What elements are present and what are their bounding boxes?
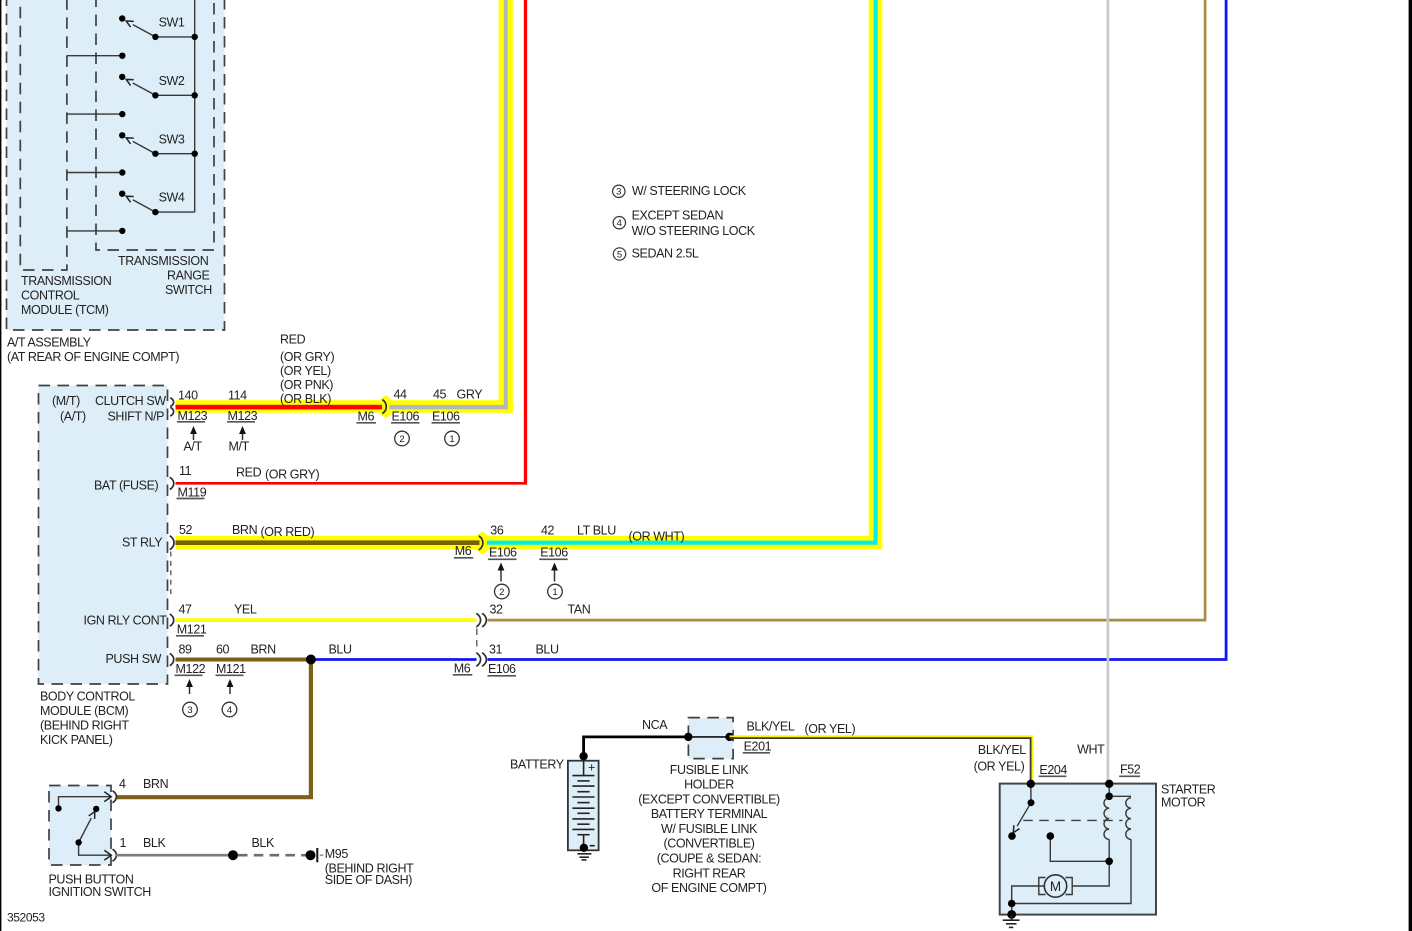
svg-text:5: 5 bbox=[617, 249, 622, 260]
svg-text:CONTROL: CONTROL bbox=[21, 289, 80, 303]
svg-text:M119: M119 bbox=[178, 486, 207, 500]
svg-text:11: 11 bbox=[179, 464, 192, 478]
svg-text:BATTERY TERMINAL: BATTERY TERMINAL bbox=[651, 807, 768, 821]
svg-text:OF ENGINE COMPT): OF ENGINE COMPT) bbox=[651, 881, 766, 895]
svg-text:YEL: YEL bbox=[234, 603, 257, 617]
svg-text:(BEHIND RIGHT: (BEHIND RIGHT bbox=[40, 719, 129, 733]
svg-text:44: 44 bbox=[394, 387, 408, 401]
svg-text:(CONVERTIBLE): (CONVERTIBLE) bbox=[663, 837, 754, 851]
svg-text:BRN: BRN bbox=[143, 777, 169, 791]
svg-text:TRANSMISSION: TRANSMISSION bbox=[118, 254, 209, 268]
svg-text:(OR GRY): (OR GRY) bbox=[280, 350, 334, 364]
svg-text:32: 32 bbox=[490, 603, 504, 617]
svg-text:M95: M95 bbox=[325, 847, 349, 861]
svg-text:SEDAN 2.5L: SEDAN 2.5L bbox=[632, 247, 699, 261]
svg-text:(COUPE & SEDAN:: (COUPE & SEDAN: bbox=[657, 852, 761, 866]
svg-text:SWITCH: SWITCH bbox=[165, 283, 212, 297]
svg-text:M122: M122 bbox=[176, 662, 206, 676]
svg-text:2: 2 bbox=[499, 587, 504, 598]
svg-text:E106: E106 bbox=[489, 546, 517, 560]
svg-text:M: M bbox=[1050, 879, 1061, 894]
svg-text:1: 1 bbox=[120, 836, 127, 850]
svg-text:(AT REAR OF ENGINE COMPT): (AT REAR OF ENGINE COMPT) bbox=[7, 350, 179, 364]
svg-text:(OR YEL): (OR YEL) bbox=[974, 760, 1025, 774]
svg-text:4: 4 bbox=[227, 705, 232, 716]
svg-text:4: 4 bbox=[119, 777, 126, 791]
svg-text:BLK/YEL: BLK/YEL bbox=[747, 720, 795, 734]
svg-text:47: 47 bbox=[179, 603, 193, 617]
svg-text:42: 42 bbox=[541, 524, 555, 538]
svg-text:STARTER: STARTER bbox=[1161, 783, 1216, 797]
svg-text:MOTOR: MOTOR bbox=[1161, 796, 1206, 810]
svg-text:114: 114 bbox=[228, 389, 247, 403]
svg-text:LT BLU: LT BLU bbox=[577, 524, 616, 538]
svg-text:60: 60 bbox=[216, 643, 230, 657]
svg-text:M121: M121 bbox=[177, 623, 207, 637]
svg-text:SW2: SW2 bbox=[159, 74, 185, 88]
svg-text:3: 3 bbox=[616, 187, 621, 198]
svg-text:A/T ASSEMBLY: A/T ASSEMBLY bbox=[7, 336, 92, 350]
svg-text:2: 2 bbox=[399, 434, 404, 445]
svg-text:+: + bbox=[588, 761, 595, 775]
svg-text:BATTERY: BATTERY bbox=[510, 758, 565, 772]
svg-text:EXCEPT SEDAN: EXCEPT SEDAN bbox=[632, 209, 724, 223]
svg-text:M123: M123 bbox=[228, 409, 258, 423]
svg-text:1: 1 bbox=[449, 434, 454, 445]
svg-text:1: 1 bbox=[552, 587, 557, 598]
svg-text:(OR PNK): (OR PNK) bbox=[280, 378, 333, 392]
svg-text:RED: RED bbox=[236, 466, 262, 480]
svg-text:M123: M123 bbox=[178, 409, 208, 423]
svg-text:SW1: SW1 bbox=[159, 16, 185, 30]
svg-text:(EXCEPT CONVERTIBLE): (EXCEPT CONVERTIBLE) bbox=[638, 792, 780, 806]
svg-text:FUSIBLE LINK: FUSIBLE LINK bbox=[670, 763, 750, 777]
svg-text:RANGE: RANGE bbox=[167, 269, 210, 283]
svg-text:52: 52 bbox=[179, 523, 193, 537]
svg-text:BRN: BRN bbox=[251, 643, 277, 657]
svg-text:W/O STEERING LOCK: W/O STEERING LOCK bbox=[632, 224, 756, 238]
svg-text:RIGHT REAR: RIGHT REAR bbox=[673, 866, 746, 880]
svg-text:(OR BLK): (OR BLK) bbox=[280, 392, 331, 406]
svg-text:ST RLY: ST RLY bbox=[122, 536, 163, 550]
svg-text:(M/T): (M/T) bbox=[52, 394, 80, 408]
svg-text:BLU: BLU bbox=[536, 643, 559, 657]
svg-text:NCA: NCA bbox=[642, 718, 668, 732]
svg-text:BRN: BRN bbox=[232, 523, 258, 537]
svg-text:45: 45 bbox=[433, 387, 447, 401]
svg-text:SW3: SW3 bbox=[159, 132, 185, 146]
svg-text:E201: E201 bbox=[744, 740, 772, 754]
svg-text:PUSH SW: PUSH SW bbox=[106, 652, 162, 666]
svg-text:(OR GRY): (OR GRY) bbox=[265, 468, 319, 482]
svg-text:BLU: BLU bbox=[329, 643, 352, 657]
svg-text:M6: M6 bbox=[454, 662, 471, 676]
svg-text:M6: M6 bbox=[455, 544, 472, 558]
svg-text:BODY CONTROL: BODY CONTROL bbox=[40, 690, 135, 704]
svg-text:352053: 352053 bbox=[7, 911, 45, 925]
svg-text:(OR RED): (OR RED) bbox=[261, 525, 315, 539]
svg-text:IGNITION SWITCH: IGNITION SWITCH bbox=[49, 885, 152, 899]
svg-text:(A/T): (A/T) bbox=[60, 410, 86, 424]
svg-text:89: 89 bbox=[179, 643, 193, 657]
svg-text:(OR YEL): (OR YEL) bbox=[280, 364, 331, 378]
svg-text:E204: E204 bbox=[1039, 763, 1067, 777]
svg-text:SIDE OF DASH): SIDE OF DASH) bbox=[325, 873, 412, 887]
svg-text:RED: RED bbox=[280, 333, 306, 347]
svg-text:M6: M6 bbox=[358, 410, 375, 424]
svg-text:CLUTCH SW: CLUTCH SW bbox=[95, 394, 166, 408]
svg-text:MODULE (BCM): MODULE (BCM) bbox=[40, 704, 128, 718]
svg-text:MODULE (TCM): MODULE (TCM) bbox=[21, 303, 109, 317]
svg-text:BLK: BLK bbox=[143, 836, 166, 850]
svg-text:(OR YEL): (OR YEL) bbox=[805, 722, 856, 736]
svg-text:TRANSMISSION: TRANSMISSION bbox=[21, 274, 112, 288]
svg-text:4: 4 bbox=[617, 218, 622, 229]
svg-text:SW4: SW4 bbox=[159, 191, 185, 205]
svg-text:KICK PANEL): KICK PANEL) bbox=[40, 733, 113, 747]
svg-text:BAT (FUSE): BAT (FUSE) bbox=[94, 479, 159, 493]
svg-text:M121: M121 bbox=[216, 662, 246, 676]
svg-text:A/T: A/T bbox=[184, 440, 203, 454]
svg-text:W/ FUSIBLE LINK: W/ FUSIBLE LINK bbox=[661, 822, 758, 836]
svg-text:31: 31 bbox=[489, 643, 503, 657]
svg-text:140: 140 bbox=[178, 389, 198, 403]
svg-text:BLK: BLK bbox=[252, 836, 275, 850]
svg-text:TAN: TAN bbox=[568, 603, 591, 617]
svg-text:E106: E106 bbox=[540, 546, 568, 560]
svg-text:SHIFT N/P: SHIFT N/P bbox=[108, 410, 165, 424]
svg-text:F52: F52 bbox=[1120, 763, 1141, 777]
svg-text:GRY: GRY bbox=[457, 387, 484, 401]
svg-text:E106: E106 bbox=[432, 410, 460, 424]
svg-text:36: 36 bbox=[490, 524, 504, 538]
svg-text:IGN RLY CONT: IGN RLY CONT bbox=[84, 614, 168, 628]
svg-text:E106: E106 bbox=[488, 662, 516, 676]
svg-text:BLK/YEL: BLK/YEL bbox=[978, 743, 1026, 757]
svg-text:3: 3 bbox=[187, 705, 192, 716]
svg-text:(OR WHT): (OR WHT) bbox=[629, 530, 685, 544]
svg-text:WHT: WHT bbox=[1077, 743, 1105, 757]
svg-text:E106: E106 bbox=[392, 410, 420, 424]
svg-text:HOLDER: HOLDER bbox=[684, 778, 734, 792]
svg-text:W/ STEERING LOCK: W/ STEERING LOCK bbox=[632, 184, 747, 198]
svg-text:M/T: M/T bbox=[229, 440, 250, 454]
